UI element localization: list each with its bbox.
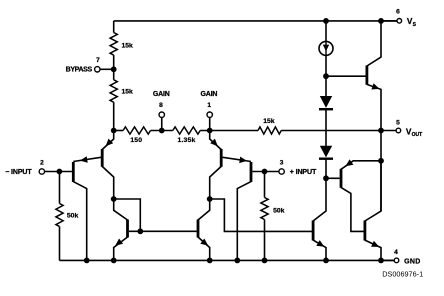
node Q8 emitter / V_OUT column	[378, 158, 384, 164]
transistor Q3 PNP +input	[220, 149, 223, 167]
transistor Q5 NPN mirror diode-connected	[126, 220, 129, 238]
node GAIN-1	[207, 128, 213, 134]
node GAIN-8	[159, 128, 165, 134]
wire gain/output row	[114, 130, 123, 132]
wire V_OUT column	[380, 131, 382, 212]
node Q9 emitter / ground	[378, 258, 384, 264]
svg-text:7: 7	[96, 57, 100, 64]
transistor Q9 NPN lower output	[363, 221, 366, 241]
transistor Q10 NPN gain stage	[312, 221, 315, 241]
svg-text:5: 5	[396, 119, 400, 126]
node Q6 emitter / ground	[207, 258, 213, 264]
terminal GAIN pin 1	[207, 112, 212, 117]
current source I1	[325, 21, 327, 42]
wire ground rail	[60, 259, 395, 261]
wire current mirror base rail	[129, 230, 197, 232]
resistor R4 1.35k	[173, 127, 200, 134]
terminal V_OUT pin 5	[396, 128, 401, 133]
wire Q4 base lead	[252, 171, 279, 173]
terminal GAIN pin 8	[159, 112, 164, 117]
svg-text:2: 2	[40, 159, 44, 166]
diode D1	[325, 76, 327, 96]
node +input / 50k	[262, 169, 268, 175]
svg-text:1: 1	[207, 102, 211, 109]
svg-text:OUT: OUT	[412, 132, 423, 138]
wire bias chain mid segment	[113, 55, 115, 80]
svg-text:3: 3	[280, 159, 284, 166]
resistor R3 150	[123, 127, 150, 134]
wire bias chain top segment	[113, 21, 115, 33]
transistor Q7 NPN upper output	[326, 75, 366, 77]
transistor Q4 PNP +input follower	[250, 162, 253, 182]
node Q1 collector / ground	[84, 258, 90, 264]
node Q7 emitter / V_OUT row	[378, 128, 384, 134]
resistor R6 50k inverting input	[59, 172, 61, 204]
transistor Q2 PNP -input	[101, 149, 104, 167]
svg-text:15k: 15k	[122, 43, 134, 50]
resistor R7 50k non-inverting input	[264, 172, 266, 198]
svg-text:15k: 15k	[263, 118, 275, 125]
node mirror base rail tap	[137, 228, 143, 234]
node Q4 collector / ground	[234, 258, 240, 264]
node diode string / Q8 base / Q10 collector	[323, 175, 329, 181]
terminal GND pin 4	[381, 259, 394, 261]
node Q10 emitter / ground	[323, 258, 329, 264]
resistor R2 15k lower bias	[110, 80, 117, 102]
transistor Q1 PNP -input follower	[72, 162, 75, 182]
svg-text:50k: 50k	[273, 207, 285, 214]
svg-text:15k: 15k	[122, 89, 134, 96]
resistor R1 15k upper bias	[110, 33, 117, 56]
node -input / 50k	[57, 169, 63, 175]
svg-text:DS006976-1: DS006976-1	[382, 269, 423, 278]
wire BYPASS lead	[100, 68, 114, 70]
svg-text:GAIN: GAIN	[153, 91, 170, 98]
terminal V_S pin 6	[381, 20, 397, 22]
wire D1 to D2 crossing row	[325, 109, 327, 146]
node BYPASS junction	[111, 66, 117, 72]
terminal -INPUT pin 2	[39, 169, 44, 174]
transistor Q8 PNP output driver	[326, 177, 340, 179]
svg-text:+ INPUT: + INPUT	[290, 169, 317, 176]
terminal +INPUT pin 3	[279, 169, 284, 174]
wire -input to Q1 base	[45, 171, 72, 173]
wire node A to mirror base rail	[114, 199, 141, 231]
svg-text:− INPUT: − INPUT	[5, 169, 32, 176]
svg-text:BYPASS: BYPASS	[66, 66, 93, 73]
resistor R5 15k feedback	[258, 127, 281, 134]
svg-text:GND: GND	[404, 258, 420, 265]
svg-text:4: 4	[394, 249, 398, 256]
wire node B to Q10 base	[210, 199, 313, 231]
node top rail / Q7 collector	[378, 18, 384, 24]
wire bias chain bottom segment	[113, 102, 115, 130]
diode D2	[320, 146, 332, 158]
transistor Q6 NPN mirror output	[197, 220, 200, 238]
svg-text:150: 150	[130, 137, 142, 144]
svg-text:6: 6	[396, 9, 400, 16]
node top rail / current source	[323, 18, 329, 24]
svg-text:GAIN: GAIN	[201, 91, 218, 98]
node row / bias chain	[111, 128, 117, 134]
node current source / Q7 base	[323, 73, 329, 79]
node B driver input	[207, 196, 213, 202]
terminal BYPASS pin 7	[95, 67, 100, 72]
node A mirror input	[111, 196, 117, 202]
svg-text:50k: 50k	[67, 213, 79, 220]
svg-text:8: 8	[159, 102, 163, 109]
wire top supply rail	[114, 20, 397, 22]
svg-text:1.35k: 1.35k	[177, 137, 195, 144]
node Q5 emitter / ground	[111, 258, 117, 264]
node right 50k / ground	[262, 258, 268, 264]
